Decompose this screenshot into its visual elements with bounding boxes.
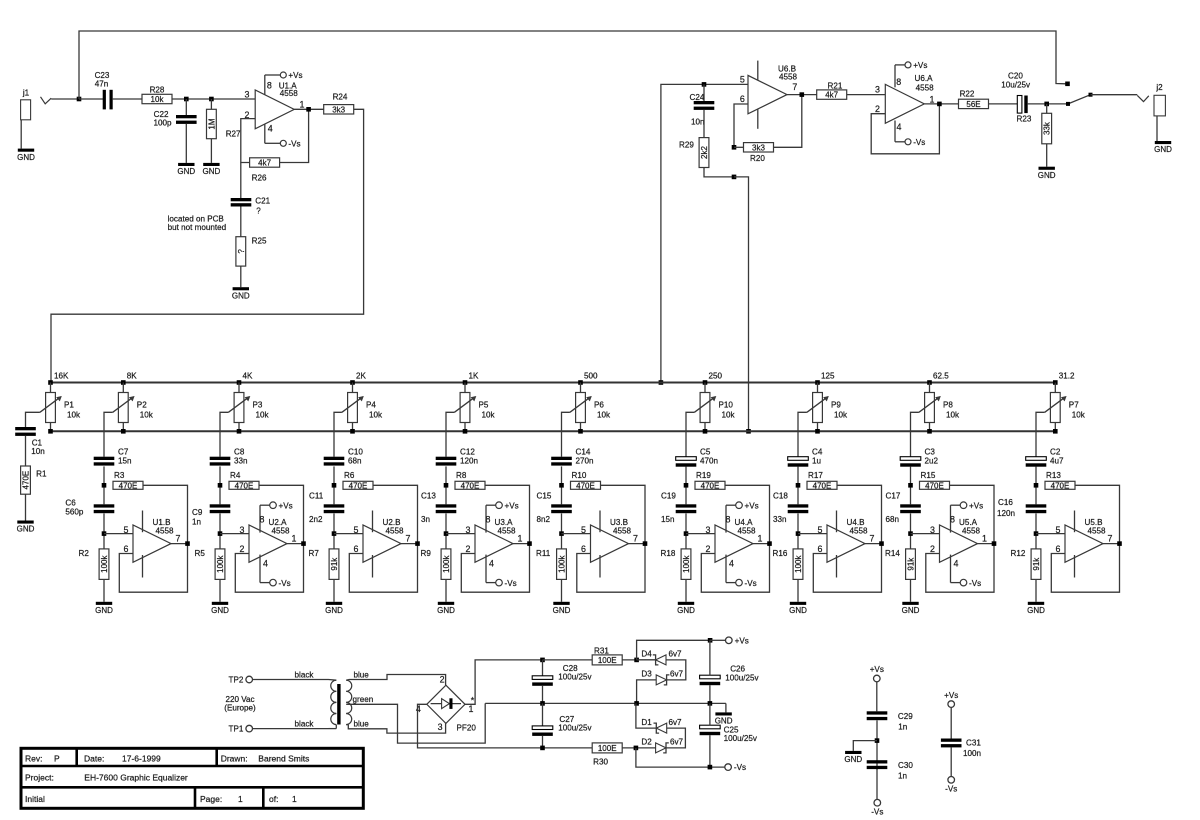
junction (P7 bottom) xyxy=(1053,429,1058,434)
svg-text:91k: 91k xyxy=(907,557,916,571)
svg-text:68n: 68n xyxy=(886,515,900,524)
svg-text:R21: R21 xyxy=(828,82,843,91)
wire (P9 wiper) xyxy=(798,412,807,456)
svg-text:C12: C12 xyxy=(460,447,475,456)
svg-text:4: 4 xyxy=(263,559,268,569)
svg-text:5: 5 xyxy=(581,525,586,535)
svg-text:4558: 4558 xyxy=(738,527,757,536)
output switch blade xyxy=(1068,95,1091,104)
wire xyxy=(950,748,952,777)
op-amp U2.B 4558 xyxy=(354,511,411,578)
svg-text:R12: R12 xyxy=(1011,549,1026,558)
wire (to U4.B input) xyxy=(798,533,827,535)
junction xyxy=(746,429,751,434)
svg-text:-Vs: -Vs xyxy=(871,808,883,817)
svg-text:R5: R5 xyxy=(195,549,206,558)
wire xyxy=(542,660,544,676)
svg-text:-Vs: -Vs xyxy=(969,579,981,588)
svg-text:3: 3 xyxy=(466,525,471,535)
capacitor C26 100u/25v xyxy=(700,664,760,685)
svg-text:R27: R27 xyxy=(226,130,241,139)
resistor R17 470E xyxy=(807,471,837,490)
svg-text:4558: 4558 xyxy=(386,527,405,536)
svg-text:P1: P1 xyxy=(64,400,74,409)
resistor R21 4k7 xyxy=(817,82,847,100)
svg-text:5: 5 xyxy=(818,525,823,535)
svg-text:62.5: 62.5 xyxy=(933,372,949,381)
svg-text:6: 6 xyxy=(581,544,586,554)
wire xyxy=(349,485,417,592)
svg-text:4558: 4558 xyxy=(779,73,798,82)
svg-text:2k2: 2k2 xyxy=(700,146,709,159)
svg-text:500: 500 xyxy=(584,372,598,381)
wire xyxy=(185,124,187,163)
wire xyxy=(910,466,912,504)
svg-text:5: 5 xyxy=(354,525,359,535)
wire (GND mid rail) xyxy=(485,702,726,704)
power terminal -Vs (supply) xyxy=(725,763,746,772)
potentiometer P4 10k xyxy=(342,383,383,432)
junction (U2.B output) xyxy=(415,541,420,546)
svg-text:4558: 4558 xyxy=(613,527,632,536)
junction xyxy=(708,765,713,770)
svg-text:5: 5 xyxy=(1056,525,1061,535)
capacitor C21 ? xyxy=(231,196,271,215)
op-amp U4.A 4558 xyxy=(706,501,763,587)
junction (P9 top) xyxy=(815,380,820,385)
resistor R25 xyxy=(236,236,267,266)
svg-text:1: 1 xyxy=(292,794,297,804)
svg-text:(Europe): (Europe) xyxy=(224,704,256,713)
wire xyxy=(561,513,563,549)
svg-text:4: 4 xyxy=(954,559,959,569)
wire xyxy=(577,485,645,592)
wire (P5 wiper) xyxy=(446,412,454,456)
svg-text:8: 8 xyxy=(260,515,265,525)
wire xyxy=(876,769,878,799)
capacitor C27 100u/25v xyxy=(532,715,592,736)
junction xyxy=(444,531,449,536)
junction xyxy=(77,97,82,102)
svg-text:+Vs: +Vs xyxy=(505,501,519,510)
wire xyxy=(637,659,656,661)
wire (P8 wiper) xyxy=(911,412,919,456)
wire (to +Vs rail) xyxy=(637,640,711,660)
wire xyxy=(871,104,939,154)
wire xyxy=(542,686,544,704)
capacitor C7 15n xyxy=(94,447,132,465)
svg-text:4: 4 xyxy=(268,123,273,133)
svg-text:10k: 10k xyxy=(482,411,496,420)
zener diode D1 6v7 xyxy=(641,718,682,733)
wire xyxy=(1035,579,1037,601)
svg-text:100p: 100p xyxy=(153,118,172,127)
wire xyxy=(113,98,142,100)
svg-text:7: 7 xyxy=(1108,533,1113,543)
svg-text:4558: 4558 xyxy=(1088,527,1107,536)
svg-text:P3: P3 xyxy=(253,400,263,409)
wire (U1.A output to band bus) xyxy=(51,109,364,382)
svg-text:C19: C19 xyxy=(661,492,676,501)
wire xyxy=(685,466,687,504)
capacitor C17 68n xyxy=(886,492,921,525)
svg-text:4k7: 4k7 xyxy=(258,159,271,168)
ground (R5) xyxy=(211,602,229,615)
svg-text:P2: P2 xyxy=(137,400,147,409)
wire xyxy=(240,207,242,237)
note text xyxy=(168,215,227,232)
junction xyxy=(796,531,801,536)
svg-text:C3: C3 xyxy=(925,447,936,456)
svg-text:P: P xyxy=(54,754,60,764)
svg-text:7: 7 xyxy=(176,533,181,543)
capacitor C31 100n xyxy=(941,739,981,759)
svg-text:GND: GND xyxy=(902,606,920,615)
svg-text:U4.B: U4.B xyxy=(847,518,865,527)
bridge rectifier PF20 xyxy=(416,674,477,732)
capacitor C22 100p xyxy=(153,110,196,127)
wire xyxy=(445,579,447,601)
svg-text:31.2: 31.2 xyxy=(1059,372,1075,381)
svg-text:10k: 10k xyxy=(369,411,383,420)
svg-text:R29: R29 xyxy=(679,141,694,150)
svg-text:P10: P10 xyxy=(719,400,734,409)
svg-text:-Vs: -Vs xyxy=(745,579,757,588)
wire xyxy=(542,703,544,726)
wire xyxy=(709,703,711,725)
svg-text:GND: GND xyxy=(325,606,343,615)
svg-text:100u/25v: 100u/25v xyxy=(724,734,758,743)
ground (R1) xyxy=(17,521,35,534)
svg-text:4558: 4558 xyxy=(962,527,981,536)
wire xyxy=(294,108,324,110)
svg-text:10k: 10k xyxy=(597,411,611,420)
svg-text:10k: 10k xyxy=(722,411,736,420)
junction (P8 top) xyxy=(927,380,932,385)
wire xyxy=(561,466,563,504)
svg-text:7: 7 xyxy=(633,533,638,543)
svg-text:P9: P9 xyxy=(831,400,841,409)
svg-text:10k: 10k xyxy=(151,95,165,104)
svg-text:8: 8 xyxy=(896,77,901,87)
svg-text:8K: 8K xyxy=(127,372,138,381)
power terminal -Vs (C30) xyxy=(871,799,883,816)
svg-text:10k: 10k xyxy=(256,411,270,420)
wire (to U3.B input) xyxy=(562,533,591,535)
svg-text:C15: C15 xyxy=(537,492,552,501)
svg-text:C7: C7 xyxy=(118,447,129,456)
junction (P6 top) xyxy=(578,380,583,385)
svg-text:D2: D2 xyxy=(641,738,652,747)
junction (P7 top) xyxy=(1053,380,1058,385)
svg-text:+Vs: +Vs xyxy=(944,691,958,700)
wire xyxy=(847,94,886,96)
ground (R7) xyxy=(325,602,343,615)
svg-text:C17: C17 xyxy=(886,492,901,501)
svg-text:470E: 470E xyxy=(461,481,480,490)
svg-text:4: 4 xyxy=(489,559,494,569)
junction (P3 top) xyxy=(237,380,242,385)
svg-text:1: 1 xyxy=(300,100,305,110)
svg-text:100k: 100k xyxy=(682,554,691,572)
svg-text:4558: 4558 xyxy=(272,527,291,536)
wire xyxy=(1156,116,1158,141)
svg-text:P8: P8 xyxy=(943,400,953,409)
junction xyxy=(732,175,737,180)
resistor R22 56E xyxy=(959,90,989,109)
svg-text:3: 3 xyxy=(240,525,245,535)
svg-text:GND: GND xyxy=(1154,145,1172,154)
svg-text:33n: 33n xyxy=(773,515,787,524)
junction xyxy=(634,658,639,663)
wire xyxy=(1035,513,1037,549)
svg-text:1: 1 xyxy=(238,794,243,804)
op-amp U6.B 4558 xyxy=(740,61,798,129)
svg-text:2: 2 xyxy=(440,674,445,684)
wire xyxy=(666,660,686,680)
title block xyxy=(21,748,363,808)
svg-text:470E: 470E xyxy=(576,481,595,490)
ground (R14) xyxy=(902,602,920,615)
svg-text:6: 6 xyxy=(818,544,823,554)
junction (P4 bottom) xyxy=(350,429,355,434)
wire (band bus to U6.B pin 5) xyxy=(661,84,748,382)
capacitor C29 1n xyxy=(867,711,914,731)
wire (P2 wiper) xyxy=(104,412,113,456)
resistor R4 470E xyxy=(229,471,259,490)
wire (bridge pin 4 to R30 rail) xyxy=(418,704,593,748)
wire xyxy=(103,579,105,601)
label 220 Vac (Europe) xyxy=(224,695,256,713)
wire xyxy=(734,146,744,148)
wire xyxy=(797,466,799,504)
svg-text:4K: 4K xyxy=(243,372,254,381)
wire xyxy=(185,99,187,115)
svg-text:470E: 470E xyxy=(925,481,944,490)
resistor R31 100E xyxy=(592,646,622,665)
svg-text:P7: P7 xyxy=(1069,400,1079,409)
svg-text:blue: blue xyxy=(354,671,370,680)
svg-text:+Vs: +Vs xyxy=(870,665,884,674)
svg-text:1n: 1n xyxy=(192,518,201,527)
svg-text:GND: GND xyxy=(789,606,807,615)
op-amp U1.B 4558 xyxy=(124,511,181,578)
wire xyxy=(20,120,22,149)
svg-text:C24: C24 xyxy=(690,93,705,102)
wire xyxy=(685,513,687,549)
svg-text:1: 1 xyxy=(758,533,763,543)
svg-text:2: 2 xyxy=(875,104,880,114)
wire (to U5.B input) xyxy=(1036,533,1065,535)
junction xyxy=(209,97,214,102)
svg-text:6v7: 6v7 xyxy=(669,650,683,659)
wire xyxy=(25,494,27,520)
potentiometer P3 10k xyxy=(228,383,269,432)
svg-text:D1: D1 xyxy=(641,718,652,727)
wire (to U2.B input) xyxy=(334,533,363,535)
svg-text:R23: R23 xyxy=(1017,114,1032,123)
svg-text:6: 6 xyxy=(740,94,745,104)
svg-text:GND: GND xyxy=(95,606,113,615)
svg-text:black: black xyxy=(295,671,315,680)
ground (C29/C30) xyxy=(844,751,862,764)
junction xyxy=(102,531,107,536)
wire xyxy=(210,139,212,163)
resistor R9 100k xyxy=(421,549,452,580)
svg-text:470E: 470E xyxy=(701,481,720,490)
resistor R10 470E xyxy=(571,471,601,490)
svg-text:1M: 1M xyxy=(207,118,216,129)
wire xyxy=(333,579,335,601)
resistor R3 470E xyxy=(113,471,143,490)
svg-text:6: 6 xyxy=(1056,544,1061,554)
svg-text:R4: R4 xyxy=(230,471,241,480)
wire (P1 wiper) xyxy=(26,412,40,427)
junction (U1.B output) xyxy=(185,541,190,546)
wire xyxy=(1035,466,1037,504)
wire xyxy=(543,659,593,661)
svg-text:1n: 1n xyxy=(898,771,907,780)
svg-text:GND: GND xyxy=(211,606,229,615)
svg-text:7: 7 xyxy=(406,533,411,543)
capacitor C5 470n xyxy=(676,447,718,466)
svg-text:-Vs: -Vs xyxy=(288,139,300,148)
junction (U4.B output) xyxy=(879,541,884,546)
wire xyxy=(219,579,221,601)
svg-text:R3: R3 xyxy=(114,471,125,480)
wire xyxy=(797,513,799,549)
wire (rail to GND) xyxy=(725,703,727,712)
svg-text:R16: R16 xyxy=(773,549,788,558)
power terminal +Vs (supply) xyxy=(726,636,749,645)
junction xyxy=(306,107,311,112)
svg-text:15n: 15n xyxy=(118,457,132,466)
junction (U3.B output) xyxy=(643,541,648,546)
svg-text:100k: 100k xyxy=(442,554,451,572)
svg-text:1u: 1u xyxy=(812,457,821,466)
svg-text:270n: 270n xyxy=(576,457,594,466)
svg-text:470E: 470E xyxy=(1051,481,1070,490)
junction xyxy=(1034,531,1039,536)
wire xyxy=(950,707,952,738)
terminal TP1 xyxy=(229,725,253,734)
svg-text:C9: C9 xyxy=(192,508,203,517)
terminal TP2 xyxy=(229,676,253,685)
wire xyxy=(709,735,711,767)
ground (R9) xyxy=(437,602,455,615)
wire xyxy=(709,685,711,703)
svg-text:C16: C16 xyxy=(998,498,1013,507)
svg-text:GND: GND xyxy=(553,606,571,615)
junction (P1 bottom) xyxy=(48,429,53,434)
junction (P8 bottom) xyxy=(927,429,932,434)
junction xyxy=(796,483,801,488)
op-amp U5.A 4558 xyxy=(930,501,987,587)
svg-text:2: 2 xyxy=(930,544,935,554)
svg-text:3: 3 xyxy=(930,525,935,535)
wire xyxy=(333,466,335,504)
svg-text:100k: 100k xyxy=(100,554,109,572)
svg-text:R17: R17 xyxy=(808,471,823,480)
wire xyxy=(876,720,878,770)
svg-text:D3: D3 xyxy=(641,670,652,679)
capacitor C13 3n xyxy=(421,492,456,525)
capacitor C20 10u/25v xyxy=(1001,72,1031,113)
svg-text:C6: C6 xyxy=(65,499,76,508)
svg-text:GND: GND xyxy=(17,525,35,534)
svg-text:TP2: TP2 xyxy=(229,676,244,685)
resistor R29 2k2 xyxy=(679,138,709,168)
junction xyxy=(559,483,564,488)
svg-text:10k: 10k xyxy=(834,411,848,420)
svg-text:TP1: TP1 xyxy=(229,725,244,734)
wire xyxy=(910,513,912,549)
capacitor C23 47n xyxy=(95,71,113,110)
svg-text:Project:: Project: xyxy=(25,773,54,783)
svg-text:-Vs: -Vs xyxy=(945,785,957,794)
svg-text:U2.B: U2.B xyxy=(383,518,401,527)
resistor R5 100k xyxy=(195,549,226,580)
junction xyxy=(634,746,639,751)
junction xyxy=(184,97,189,102)
svg-text:U5.B: U5.B xyxy=(1085,518,1103,527)
svg-text:P5: P5 xyxy=(479,400,489,409)
svg-text:C13: C13 xyxy=(421,492,436,501)
svg-text:-Vs: -Vs xyxy=(505,579,517,588)
svg-text:4558: 4558 xyxy=(280,89,299,98)
potentiometer P1 10k xyxy=(40,383,81,432)
svg-text:C2: C2 xyxy=(1050,447,1061,456)
potentiometer P2 10k xyxy=(113,383,154,432)
wire xyxy=(926,485,994,592)
svg-text:R19: R19 xyxy=(696,471,711,480)
resistor R1 470E xyxy=(21,466,47,494)
svg-text:250: 250 xyxy=(709,372,723,381)
wire xyxy=(1091,94,1138,96)
svg-text:68n: 68n xyxy=(348,457,362,466)
svg-text:R31: R31 xyxy=(594,646,609,655)
capacitor C8 33n xyxy=(210,447,248,465)
junction xyxy=(937,102,942,107)
net bus (feedback bus) xyxy=(51,430,1057,432)
resistor R11 100k xyxy=(536,549,567,580)
junction xyxy=(540,701,545,706)
svg-text:4: 4 xyxy=(897,122,902,132)
resistor R16 100k xyxy=(773,549,804,580)
svg-text:C18: C18 xyxy=(773,492,788,501)
wire (bridge + to R31 rail) xyxy=(465,660,543,704)
potentiometer P6 10k xyxy=(570,383,611,432)
svg-text:GND: GND xyxy=(1038,171,1056,180)
ground (J1) xyxy=(17,149,35,162)
wire xyxy=(924,103,958,105)
wire (to U5.A input) xyxy=(911,533,940,535)
svg-text:100E: 100E xyxy=(598,744,617,753)
junction xyxy=(102,483,107,488)
ground (R11) xyxy=(553,602,571,615)
wire xyxy=(561,579,563,601)
svg-text:R25: R25 xyxy=(252,236,267,245)
svg-text:4558: 4558 xyxy=(916,84,935,93)
svg-text:R15: R15 xyxy=(921,471,936,480)
svg-text:3n: 3n xyxy=(421,515,430,524)
svg-text:7: 7 xyxy=(792,82,797,92)
svg-text:10u/25v: 10u/25v xyxy=(1001,81,1031,90)
svg-text:120n: 120n xyxy=(460,457,478,466)
svg-text:100k: 100k xyxy=(794,554,803,572)
resistor R30 100E xyxy=(592,743,622,767)
wire xyxy=(79,98,103,100)
